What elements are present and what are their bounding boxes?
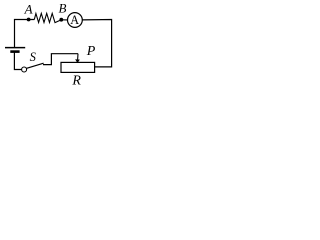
ammeter U1	[68, 13, 83, 28]
wire: switch pivot to bottom-left corner and up to battery negative	[14, 53, 21, 70]
wire: ammeter to top-right corner, down right side, to rheostat right terminal	[82, 20, 111, 67]
battery BT1 (long positive plate, short thick negative plate)	[5, 48, 25, 52]
svg-text:A: A	[24, 1, 33, 16]
node B (junction dot)	[59, 18, 63, 22]
svg-text:P: P	[86, 44, 96, 59]
svg-text:A: A	[70, 13, 79, 27]
switch S (pivot circle and open blade)	[22, 63, 44, 72]
wire: battery positive up left side and along top to node A	[15, 20, 35, 48]
wiper arrow P (shaft and head onto box top)	[76, 54, 79, 63]
node A (junction dot)	[27, 18, 31, 22]
rheostat R (slide box)	[61, 62, 95, 72]
svg-text:R: R	[71, 74, 81, 89]
wire: node B to ammeter	[61, 19, 67, 21]
resistor (zigzag between A and B)	[34, 13, 61, 22]
svg-text:B: B	[59, 1, 67, 16]
svg-text:S: S	[30, 50, 37, 64]
wire: wiper lead left and down to switch fixed contact	[43, 54, 78, 65]
